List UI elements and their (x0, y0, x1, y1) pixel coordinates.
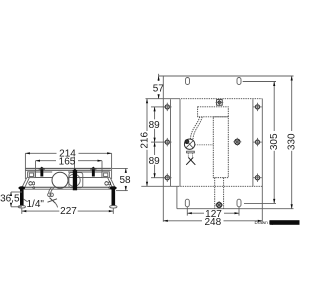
svg-text:89: 89 (149, 156, 161, 167)
left flange inner wall + 165 extension (35, 161, 37, 178)
svg-text:57: 57 (153, 84, 165, 95)
hole left bottom (163, 174, 171, 182)
dimension 89 upper (149, 107, 165, 142)
svg-text:330: 330 (286, 133, 297, 150)
dimension 165 (36, 156, 103, 167)
hole left middle (163, 138, 171, 146)
bottom slot left (185, 199, 189, 207)
center black stud (72, 157, 77, 190)
connector collar (187, 151, 195, 157)
cable curve from tube (49, 187, 54, 193)
57/216 extension at lid top (146, 98, 181, 100)
bottom long bolt right: head (110, 186, 117, 208)
svg-text:8°: 8° (26, 181, 36, 190)
channel top rails (35, 172, 102, 178)
216 extension at opening bottom (141, 185, 178, 187)
bottom long bolt left: head (18, 186, 25, 208)
hole left top (163, 103, 171, 111)
hole right middle (253, 138, 261, 146)
lid left edge (179, 99, 181, 187)
screw bottom center (215, 201, 223, 209)
top slot left (186, 78, 190, 85)
svg-text:58: 58 (119, 175, 131, 186)
plate bottom-left inner vertical (176, 186, 178, 208)
svg-text:1/4": 1/4" (27, 199, 45, 210)
left 8-degree slanted end (22, 178, 29, 187)
left end box (28, 172, 35, 178)
right flange inner wall + 165 extension (101, 161, 103, 178)
lid sheet lines (25, 168, 111, 170)
screw right middle (233, 138, 241, 146)
right end box (102, 172, 110, 178)
bottom slot right (237, 199, 241, 207)
plate left edge + 248 extension (162, 76, 164, 222)
dimension 89 lower (149, 142, 165, 178)
dimension 330 (rotated) (286, 76, 297, 209)
top short screw left (39, 167, 45, 177)
clamp eye circle (68, 174, 80, 186)
cable connector (184, 139, 213, 149)
hole right top (253, 103, 261, 111)
wire ends twist (186, 157, 195, 164)
lid top hidden edge (181, 98, 262, 100)
right flange outer wall + 214 extension (111, 153, 113, 179)
actuator tube circle (52, 172, 68, 188)
dimension 305 (rotated) (243, 82, 280, 204)
svg-text:305: 305 (269, 133, 280, 150)
clamp bracket plate (69, 173, 83, 188)
svg-text:165: 165 (59, 156, 76, 167)
channel floor double line (24, 187, 113, 189)
svg-text:227: 227 (60, 206, 77, 217)
frame inner edge left (170, 99, 172, 186)
dimension 127 (187, 207, 239, 220)
dimension 57 (153, 74, 165, 99)
actuator top bracket (216, 99, 224, 106)
top slot right (237, 78, 241, 85)
actuator body (hidden) (213, 117, 228, 178)
label 1/4 inch with leader (24, 199, 45, 210)
actuator motor box (hidden) (198, 107, 229, 117)
hole right bottom (253, 174, 261, 182)
cable (hidden) (190, 117, 202, 139)
svg-text:36,5: 36,5 (0, 194, 20, 205)
opening bottom hidden edge (178, 185, 262, 187)
dimension 36,5 (0, 192, 22, 207)
cable wire end circles (48, 193, 58, 207)
left flange outer wall + 214 extension (24, 153, 26, 179)
right 8-degree slanted end (108, 178, 115, 187)
redaction bar (270, 220, 300, 225)
dimension 214 (25, 149, 111, 160)
plate bottom edge + 330 extension (177, 208, 294, 210)
svg-text:216: 216 (140, 132, 151, 149)
frame inner edge right (252, 99, 254, 186)
lid right edge + 248 extension (261, 99, 263, 222)
svg-text:89: 89 (149, 120, 161, 131)
dimension 58 (112, 168, 131, 190)
plate top edge + 330 extension (159, 75, 294, 77)
svg-text:248: 248 (204, 217, 221, 228)
dimension 248 (163, 217, 262, 228)
top short screw right (90, 167, 96, 177)
dimension 227 (22, 206, 114, 217)
dimension 216 (rotated) (140, 99, 151, 187)
actuator rod (hidden) (215, 178, 224, 209)
